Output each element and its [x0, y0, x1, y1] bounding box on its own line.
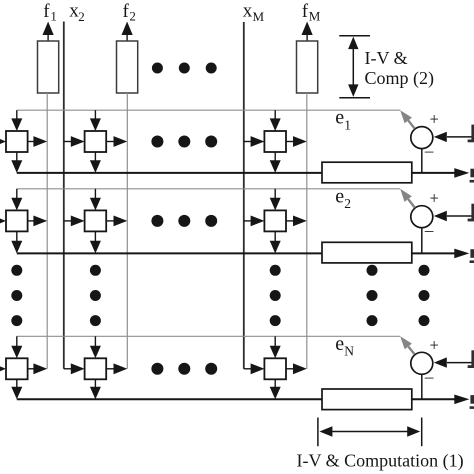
wire out of synapse cell S22 to output line [90, 231, 101, 253]
wire into synapse cell SN1 from x1 column (clipped at edge) [0, 364, 6, 375]
wire into synapse cell S12 from x column [64, 136, 85, 147]
I-V device rect FM output arrow [302, 22, 313, 42]
wire out of synapse cell SN3 to f column [286, 363, 307, 374]
label f2 [123, 1, 136, 23]
wire from summing node 2 to output line [421, 228, 423, 254]
label xM [243, 1, 265, 25]
plus sign row 2 [430, 189, 439, 208]
synapse cell S12 [85, 131, 107, 152]
error feedback arrow e1 (gray) [400, 110, 415, 128]
column line f2 [126, 93, 128, 369]
dimension bracket for I-V & Computation (1) [318, 418, 422, 447]
wire out of synapse cell S11 to output line [11, 152, 22, 173]
error feedback arrow eN (gray) [400, 336, 414, 354]
plus sign row 1 [430, 110, 439, 129]
label x2 [69, 1, 85, 25]
partial label d1 at edge [468, 125, 474, 143]
plus sign row N [430, 335, 439, 354]
wire into synapse cell S22 from error line [90, 189, 101, 211]
partial label y2 at edge [470, 249, 474, 263]
svg-text:+: + [430, 335, 439, 354]
I-V device rect F2 [117, 41, 138, 93]
svg-text:x: x [243, 1, 253, 22]
wire into synapse cell S22 from x column [64, 216, 85, 227]
I-V &amp; Computation (1) box row 1 [322, 162, 412, 183]
synapse cell S23 [264, 210, 286, 231]
I-V device rect FM [297, 41, 318, 93]
svg-text:2: 2 [344, 196, 351, 211]
wire out of synapse cell SN1 to output line [11, 379, 22, 399]
svg-text:Comp (2): Comp (2) [365, 68, 435, 89]
wire into synapse cell S23 from x column [244, 216, 265, 227]
wire out of synapse cell S11 to f column [28, 136, 48, 147]
arrow desired input dN [434, 357, 474, 367]
svg-text:M: M [253, 9, 265, 24]
wire into synapse cell SN3 from x column [244, 363, 265, 374]
svg-text:–: – [424, 220, 434, 239]
wire into synapse cell SN2 from error line [90, 336, 101, 358]
wire out of synapse cell S23 to f column [286, 216, 307, 227]
synapse cell S13 [264, 131, 286, 152]
wire from summing node 1 to output line [421, 149, 423, 173]
svg-text:2: 2 [129, 8, 136, 23]
summing node U2 [411, 206, 433, 228]
partial label y1 at edge [470, 169, 474, 183]
label f1 [43, 1, 57, 23]
partial label dN at edge [468, 350, 474, 368]
wire out of synapse cell SN2 to output line [90, 379, 101, 399]
summing node U1 [411, 127, 433, 149]
wire out of synapse cell S21 to f column [28, 216, 48, 227]
wire into synapse cell S11 from error line [11, 110, 22, 131]
dimension bracket for I-V & Comp (2) [339, 36, 370, 98]
svg-text:2: 2 [78, 9, 85, 24]
wire into synapse cell S23 from error line [270, 189, 281, 211]
arrow desired input d2 [434, 211, 474, 221]
synapse cell SN2 [85, 358, 107, 379]
label e1 [335, 107, 351, 133]
I-V device rect F2 output arrow [122, 22, 133, 42]
wire out of synapse cell S22 to f column [106, 216, 127, 227]
wire into synapse cell SN1 from error line [11, 336, 22, 358]
svg-text:+: + [430, 110, 439, 129]
error feedback arrow e2 (gray) [400, 189, 415, 208]
minus sign row 2 [424, 220, 434, 239]
ellipsis dots vertical columns [11, 265, 429, 326]
column line f1 [46, 93, 48, 369]
arrow desired input d1 [434, 132, 474, 142]
wire out of synapse cell SN1 to f column [28, 363, 48, 374]
arrow output y1 [454, 168, 469, 178]
wire out of synapse cell SN3 to output line [270, 379, 281, 399]
wire out of synapse cell S12 to f column [106, 136, 127, 147]
annotation text I-V & Comp (2) [365, 48, 435, 89]
wire row N error line eN [17, 335, 400, 337]
label eN [335, 333, 354, 359]
wire into synapse cell S12 from error line [90, 110, 101, 131]
column line xM [243, 22, 245, 369]
wire from summing node N to output line [421, 374, 423, 399]
wire out of synapse cell S12 to output line [90, 152, 101, 173]
partial label d2 at edge [468, 204, 474, 222]
I-V &amp; Computation (1) box row 2 [322, 242, 412, 263]
synapse cell S21 [6, 210, 28, 231]
svg-text:f: f [43, 1, 50, 22]
ellipsis dots row N [151, 363, 217, 375]
label e2 [335, 185, 351, 211]
I-V &amp; Computation (1) box row N [322, 389, 412, 410]
summing node UN [411, 352, 433, 374]
wire out of synapse cell S23 to output line [270, 231, 281, 253]
ellipsis dots top columns [152, 63, 217, 74]
wire into synapse cell S13 from error line [270, 110, 281, 131]
partial label yN at edge [470, 395, 474, 409]
svg-text:I-V &: I-V & [365, 48, 408, 68]
I-V device rect F1 output arrow [43, 22, 54, 42]
wire out of synapse cell S13 to f column [286, 136, 307, 147]
svg-text:–: – [424, 367, 434, 386]
wire row 2 output line [17, 252, 455, 254]
ellipsis dots row 1 [151, 136, 217, 148]
wire row 1 output line [17, 172, 455, 174]
minus sign row N [424, 367, 434, 386]
svg-text:+: + [430, 189, 439, 208]
svg-text:I-V & Computation (1): I-V & Computation (1) [297, 451, 464, 472]
wire row 1 error line e1 [17, 109, 400, 111]
synapse cell S11 [6, 131, 28, 152]
svg-text:e: e [335, 185, 344, 207]
label fM [302, 1, 321, 23]
minus sign row 1 [424, 141, 434, 160]
wire row 2 error line e2 [17, 188, 400, 190]
svg-text:f: f [302, 1, 309, 22]
arrow output yN [454, 395, 469, 405]
svg-text:N: N [344, 344, 354, 359]
arrow output y2 [454, 249, 469, 259]
svg-text:1: 1 [50, 8, 57, 23]
wire into synapse cell S11 from x1 column (clipped at edge) [0, 136, 6, 147]
wire row N output line [17, 398, 455, 400]
svg-text:e: e [335, 333, 344, 355]
wire into synapse cell S21 from error line [11, 189, 22, 211]
annotation text I-V & Computation (1) [297, 451, 464, 472]
ellipsis dots row 2 [151, 215, 217, 227]
wire into synapse cell S21 from x1 column (clipped at edge) [0, 216, 6, 227]
column line x2 [63, 22, 65, 369]
I-V device rect F1 [38, 41, 59, 93]
synapse cell SN3 [264, 358, 286, 379]
svg-text:e: e [335, 107, 344, 129]
synapse cell S22 [85, 210, 107, 231]
svg-text:M: M [309, 8, 321, 23]
column line fM [306, 93, 308, 369]
svg-text:–: – [424, 141, 434, 160]
wire into synapse cell SN2 from x column [64, 363, 85, 374]
wire out of synapse cell SN2 to f column [106, 363, 127, 374]
svg-text:1: 1 [344, 117, 351, 132]
wire out of synapse cell S21 to output line [11, 231, 22, 253]
synapse cell SN1 [6, 358, 28, 379]
wire out of synapse cell S13 to output line [270, 152, 281, 173]
wire into synapse cell SN3 from error line [270, 336, 281, 358]
wire into synapse cell S13 from x column [244, 136, 265, 147]
